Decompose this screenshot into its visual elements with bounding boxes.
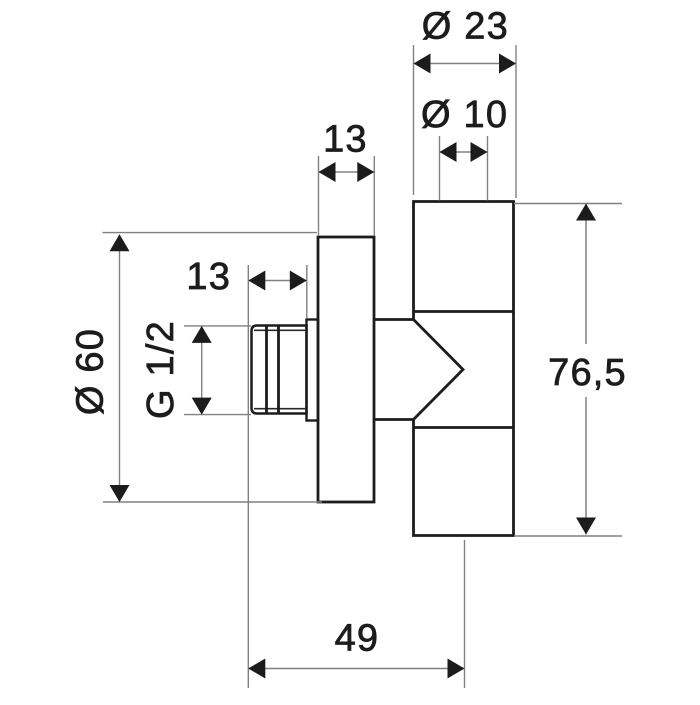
svg-text:49: 49	[335, 618, 380, 660]
arrowhead diameter 10 right	[471, 142, 488, 162]
dimension line flange 13	[319, 171, 375, 173]
thread crest line bottom	[254, 408, 307, 410]
arrowhead thread 13 left	[248, 271, 265, 291]
extension line thread 13 left / 49 left	[247, 265, 249, 688]
extension lines diameter 60	[103, 233, 323, 502]
dimension line thread 13	[248, 280, 306, 282]
extension lines flange 13	[319, 156, 375, 236]
valve cone connector with pentagon point	[374, 320, 463, 420]
arrowhead 76,5 top	[576, 204, 596, 221]
valve body outer outline	[414, 202, 514, 536]
extension lines 76,5	[514, 204, 622, 537]
thread ridge 1	[265, 326, 268, 413]
arrowhead G 1/2 bottom	[192, 398, 212, 415]
dimension line G 1/2	[201, 326, 203, 415]
arrowhead flange 13 right	[357, 162, 374, 182]
dimension line 49	[248, 668, 464, 670]
thread ridge 2	[277, 326, 280, 413]
arrowhead 76,5 bottom	[576, 518, 596, 535]
arrowhead diameter 23 left	[414, 54, 431, 74]
arrowhead diameter 60 top	[110, 234, 130, 251]
arrowhead 49 left	[248, 659, 265, 679]
collar ring	[307, 320, 319, 421]
body divider upper	[414, 310, 514, 313]
arrowhead 49 right	[448, 659, 465, 679]
extension line thread 13 right	[306, 265, 308, 318]
svg-text:13: 13	[186, 256, 231, 298]
dimension line 76,5	[585, 204, 587, 535]
extension lines diameter 10	[440, 136, 488, 201]
dimension line diameter 23	[414, 63, 517, 65]
arrowhead diameter 23 right	[499, 54, 516, 74]
arrowhead thread 13 right	[290, 271, 307, 291]
dimension line diameter 60	[119, 235, 121, 502]
thread cylinder G1/2	[252, 326, 307, 414]
arrowhead diameter 10 left	[440, 142, 457, 162]
svg-text:Ø 60: Ø 60	[70, 328, 112, 415]
arrowhead flange 13 left	[319, 162, 336, 182]
extension lines diameter 23	[414, 45, 517, 198]
wall flange plate	[318, 237, 374, 502]
svg-text:13: 13	[323, 119, 368, 161]
arrowhead G 1/2 top	[192, 326, 212, 343]
arrowhead diameter 60 bottom	[110, 485, 130, 502]
extension line 49 right	[464, 540, 466, 688]
white box under 76,5 label	[548, 344, 627, 397]
svg-text:76,5: 76,5	[548, 352, 627, 394]
svg-text:G 1/2: G 1/2	[140, 320, 182, 419]
svg-text:Ø 23: Ø 23	[422, 6, 509, 48]
dimension line diameter 10	[440, 151, 488, 153]
body divider lower	[414, 426, 514, 429]
thread crest line top	[254, 329, 307, 331]
svg-text:Ø 10: Ø 10	[421, 94, 508, 136]
extension lines G 1/2	[184, 326, 251, 415]
